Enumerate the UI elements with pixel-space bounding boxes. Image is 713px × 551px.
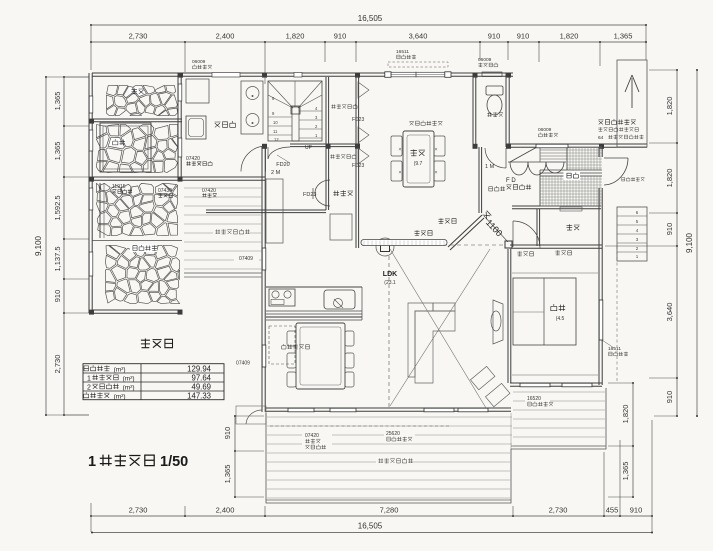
svg-text:07409: 07409 <box>239 256 253 262</box>
western room west wall <box>355 77 357 248</box>
tezukuri labels japanese room <box>517 251 533 256</box>
svg-text:1,365: 1,365 <box>621 462 630 481</box>
svg-text:910: 910 <box>630 506 643 515</box>
hall north wall under stairs <box>290 143 360 145</box>
washroom bottom wall <box>92 176 265 178</box>
svg-text:(m²): (m²) <box>114 367 126 374</box>
svg-text:1: 1 <box>88 454 96 470</box>
dimension bottom overall 16,505 <box>92 532 652 534</box>
shutter dashed deck <box>270 425 450 427</box>
svg-text:97.64: 97.64 <box>191 374 211 383</box>
svg-text:16511: 16511 <box>608 346 621 352</box>
hall west wall <box>478 147 480 213</box>
entrance door labels top right <box>599 119 636 125</box>
sofa <box>408 303 433 377</box>
svg-text:06009: 06009 <box>478 57 492 63</box>
svg-text:1/50: 1/50 <box>160 454 188 470</box>
svg-text:FD23: FD23 <box>352 117 364 123</box>
svg-text:2,730: 2,730 <box>129 32 148 41</box>
svg-text:7,280: 7,280 <box>380 506 399 515</box>
western room top windows <box>391 72 445 77</box>
closet west wall <box>536 209 538 246</box>
post with circle <box>376 238 394 256</box>
dimension top overall 16,505 <box>91 24 646 26</box>
washroom door arc <box>265 146 267 172</box>
svg-text:16,505: 16,505 <box>358 14 383 23</box>
svg-text:910: 910 <box>334 32 347 41</box>
svg-text:16520: 16520 <box>527 396 541 402</box>
svg-text:07430: 07430 <box>158 188 172 194</box>
svg-text:10: 10 <box>273 120 278 125</box>
partition dashed lines <box>388 256 390 408</box>
japanese room label <box>551 304 565 311</box>
dimension right overall 9,100 <box>696 70 698 416</box>
dimension left segments line <box>63 77 65 415</box>
svg-text:11915: 11915 <box>112 184 126 190</box>
hall post <box>505 241 512 248</box>
porch arrow <box>631 78 633 108</box>
svg-text:1,820: 1,820 <box>286 32 305 41</box>
pantry walls <box>325 143 327 210</box>
right wall with door opening <box>598 147 600 157</box>
outer wall left <box>88 73 90 313</box>
toilet west wall <box>472 73 474 147</box>
washroom corner closet <box>186 79 209 103</box>
toilet door arc <box>505 148 507 168</box>
dimension bottom segments <box>91 515 652 517</box>
stone patch middle <box>96 183 177 235</box>
svg-text:49.69: 49.69 <box>191 383 211 392</box>
svg-text:(m²): (m²) <box>123 376 135 383</box>
stone patch bottom <box>105 245 179 303</box>
svg-text:1,820: 1,820 <box>665 97 674 116</box>
svg-text:910: 910 <box>665 391 674 404</box>
kitchen back door <box>236 406 266 424</box>
window glyphs jroom bottom <box>520 383 550 387</box>
svg-text:FD20: FD20 <box>276 162 289 168</box>
western room label <box>411 149 425 156</box>
japanese room west wall <box>507 249 509 383</box>
entrance tile hatch <box>540 147 602 206</box>
svg-text:11: 11 <box>273 129 278 134</box>
svg-text:07420: 07420 <box>305 433 319 439</box>
upper wood deck planks <box>184 188 262 269</box>
dimension deck right column <box>632 383 634 497</box>
dimension deck left column <box>234 416 236 497</box>
svg-text:(9.7: (9.7 <box>414 161 423 167</box>
refrigerator <box>330 214 352 240</box>
window glyphs ldk bottom <box>288 408 314 412</box>
washbasin <box>186 116 206 139</box>
dimension left overall 9,100 <box>45 77 47 415</box>
western room chairs <box>391 136 402 156</box>
svg-text:2,400: 2,400 <box>216 32 235 41</box>
svg-text:910: 910 <box>53 290 62 303</box>
handmade counter <box>361 240 447 246</box>
svg-text:2: 2 <box>87 385 91 392</box>
svg-text:1,137.5: 1,137.5 <box>53 246 62 271</box>
svg-text:×: × <box>434 170 437 176</box>
wall junction posts <box>178 73 183 78</box>
toilet east wall / entry corner <box>505 73 507 147</box>
area table title <box>141 339 173 349</box>
shutter dashed box <box>388 62 448 67</box>
svg-text:1,820: 1,820 <box>621 405 630 424</box>
bath room frame <box>100 123 151 172</box>
svg-text:147.33: 147.33 <box>187 392 211 401</box>
closet window mark <box>560 207 582 211</box>
svg-text:3,640: 3,640 <box>665 303 674 322</box>
window label 07409 <box>234 255 259 262</box>
area table <box>83 364 224 400</box>
svg-text:UP: UP <box>305 145 313 151</box>
svg-text:12: 12 <box>274 137 279 142</box>
bath label <box>110 139 126 147</box>
toilet label <box>487 112 503 117</box>
closet fold doors <box>358 82 369 164</box>
closet north wall <box>512 205 601 207</box>
entrance agarikamachi diagonal <box>510 147 537 162</box>
svg-text:3,640: 3,640 <box>409 32 428 41</box>
japanese room perimeter lines <box>512 272 598 274</box>
svg-text:1,820: 1,820 <box>560 32 579 41</box>
counter front lines <box>266 310 362 312</box>
stove <box>269 289 295 306</box>
toilet window <box>482 72 502 77</box>
svg-text:(m²): (m²) <box>123 385 135 392</box>
svg-text:1,820: 1,820 <box>665 169 674 188</box>
svg-text:1,592.5: 1,592.5 <box>53 195 62 220</box>
kitchen west wall <box>261 146 263 412</box>
dining table <box>296 323 345 389</box>
svg-text:910: 910 <box>517 32 530 41</box>
closet label <box>567 224 580 230</box>
window glyphs entrance north <box>536 144 568 148</box>
toilet fixture <box>486 86 503 95</box>
japanese room north wall <box>510 244 602 246</box>
svg-text:F D: F D <box>506 178 516 184</box>
svg-text:2,730: 2,730 <box>549 506 568 515</box>
svg-text:1,365: 1,365 <box>53 92 62 111</box>
stairs door FD20 <box>267 147 269 159</box>
angled wall hall <box>448 215 482 247</box>
svg-text:06009: 06009 <box>538 127 552 133</box>
svg-text:910: 910 <box>223 427 232 440</box>
approach steps <box>617 207 647 261</box>
japanese room bottom wall <box>510 382 602 384</box>
middle divider line <box>92 240 182 242</box>
svg-text:07420: 07420 <box>202 188 216 194</box>
entrance step boards <box>540 149 567 151</box>
pantry door arcs <box>315 180 330 206</box>
dining chairs <box>287 331 296 346</box>
svg-text:2,400: 2,400 <box>216 506 235 515</box>
sink <box>324 290 355 309</box>
svg-text:LDK: LDK <box>383 271 397 278</box>
svg-text:1,365: 1,365 <box>223 465 232 484</box>
closet labels <box>331 104 357 109</box>
basement entry label <box>282 344 310 349</box>
svg-text:06009: 06009 <box>192 59 206 65</box>
storage label <box>129 88 145 96</box>
window glyph jroom east <box>599 300 603 340</box>
svg-text:64: 64 <box>598 135 604 141</box>
svg-text:1,365: 1,365 <box>614 32 633 41</box>
svg-text:9,100: 9,100 <box>34 235 43 256</box>
svg-text:25620: 25620 <box>386 431 400 437</box>
svg-text:16511: 16511 <box>396 49 409 55</box>
stone patch bath <box>96 124 177 172</box>
svg-text:×: × <box>398 170 401 176</box>
lounge chairs rotated <box>470 366 509 406</box>
about 1100 dim <box>484 216 508 242</box>
svg-text:9,100: 9,100 <box>685 232 694 253</box>
washroom label <box>215 121 236 127</box>
deck labels <box>302 431 332 451</box>
svg-text:×: × <box>398 147 401 153</box>
stone column right wall <box>177 73 179 180</box>
bath divider wall <box>92 118 182 120</box>
dimension right segments line <box>676 70 678 416</box>
outer wall top <box>92 72 513 74</box>
bath frame 2 <box>99 183 101 238</box>
svg-text:2 M: 2 M <box>271 170 281 176</box>
svg-text:(m²): (m²) <box>114 394 126 401</box>
tezukuri labels <box>439 218 457 223</box>
staircase center rail <box>292 107 299 141</box>
upper deck label <box>213 228 250 236</box>
svg-text:1,365: 1,365 <box>53 142 62 161</box>
hall labels <box>489 186 505 191</box>
stone patch top <box>106 85 177 115</box>
basement entry dashed <box>269 326 295 364</box>
svg-text:2,730: 2,730 <box>53 355 62 374</box>
svg-text:129.94: 129.94 <box>187 365 212 374</box>
entrance north wall <box>506 143 647 145</box>
entrance porch <box>617 60 647 147</box>
svg-text:16,505: 16,505 <box>358 522 383 531</box>
svg-text:455: 455 <box>606 506 619 515</box>
kitchen counter <box>266 286 362 288</box>
svg-text:(4.5: (4.5 <box>556 316 565 322</box>
garden labels <box>130 245 157 253</box>
staircase box <box>268 81 322 141</box>
tall cabinet <box>266 179 283 243</box>
kotatsu label <box>409 121 442 126</box>
ldk bottom wall <box>266 407 511 409</box>
svg-text:1: 1 <box>87 376 91 383</box>
wood deck planks lower <box>267 392 605 498</box>
front door arc <box>604 157 628 159</box>
stone column bottom wall <box>92 309 182 311</box>
svg-text:1 M: 1 M <box>485 164 495 170</box>
void cross diagonals <box>390 249 486 408</box>
svg-text:910: 910 <box>488 32 501 41</box>
svg-text:FD23: FD23 <box>303 192 316 198</box>
entrance closet tiny label <box>622 177 645 181</box>
svg-text:(23.1: (23.1 <box>384 280 396 286</box>
western room table <box>403 131 434 187</box>
dimension top segments line <box>91 41 646 43</box>
staircase winders <box>268 81 322 108</box>
tatami <box>513 278 576 345</box>
laundry counter <box>241 81 263 134</box>
stairs east wall <box>325 77 327 143</box>
washroom west wall window glyphs <box>178 84 182 101</box>
closet door arc <box>512 221 514 247</box>
svg-text:07420: 07420 <box>186 156 200 162</box>
deck outline <box>266 388 606 503</box>
entrance label <box>564 172 581 181</box>
svg-text:910: 910 <box>665 223 674 236</box>
left wall window glyphs <box>89 96 93 113</box>
entrance scallop arcs <box>510 162 564 175</box>
svg-text:2,730: 2,730 <box>129 506 148 515</box>
svg-text:07409: 07409 <box>236 361 250 367</box>
tv cabinet <box>493 300 503 344</box>
svg-text:FD23: FD23 <box>352 163 364 169</box>
svg-text:×: × <box>434 147 437 153</box>
staircase treads <box>268 116 292 118</box>
window glyphs kitchen west <box>262 248 266 270</box>
